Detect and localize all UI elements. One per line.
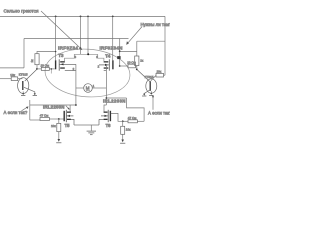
svg-text:3: 3 — [75, 55, 77, 59]
ground arrow T6 — [120, 140, 125, 144]
resistor R pulldown T5 — [57, 119, 61, 139]
resistor R base left (10k) — [11, 77, 22, 81]
svg-text:47 Ом: 47 Ом — [40, 114, 49, 118]
wire bottom-left route vertical — [29, 100, 31, 120]
wire bottom-left route horizontal — [30, 119, 40, 121]
wire jog right — [120, 51, 137, 53]
wire left input lower — [0, 78, 11, 80]
svg-text:А если так?: А если так? — [148, 110, 170, 115]
svg-text:10к: 10к — [126, 128, 131, 132]
svg-text:1к: 1к — [140, 59, 144, 63]
node dot jog right — [119, 50, 121, 52]
transistor VT2 КТ315 right — [137, 69, 157, 96]
node T6 gate dot — [122, 120, 124, 122]
svg-text:10к: 10к — [10, 73, 15, 77]
svg-text:10к: 10к — [51, 124, 56, 128]
resistor R series gate T5 — [40, 118, 49, 121]
node rail dot A — [55, 16, 57, 18]
node rail dot B — [80, 16, 82, 18]
ground center — [87, 125, 96, 135]
wire T3 source corner — [65, 54, 75, 61]
svg-text:47 Ом: 47 Ом — [128, 116, 137, 120]
node T5 gate dot — [58, 118, 60, 120]
svg-text:10 Ом: 10 Ом — [41, 64, 50, 68]
resistor R gate pull-up right — [135, 56, 139, 69]
wire right route down — [127, 98, 145, 121]
wire T4 gate vertical — [112, 16, 114, 60]
node rail dot D — [112, 16, 114, 18]
motor M1 — [76, 84, 107, 93]
wire into T5 gate — [49, 118, 63, 120]
wire right route y98 — [106, 97, 126, 99]
svg-text:T5: T5 — [65, 123, 71, 128]
svg-text:IRL2203N: IRL2203N — [43, 105, 65, 110]
svg-text:А если так?: А если так? — [4, 110, 28, 115]
resistor R base right — [151, 73, 165, 80]
annotation arrow2 — [127, 27, 142, 45]
node collector dot right — [136, 69, 138, 71]
wire T5 drain bus — [30, 104, 76, 106]
svg-text:M: M — [86, 86, 90, 91]
transistor T4 (IRF9Z34N) — [99, 59, 113, 70]
wire motor node right vertical — [105, 65, 107, 105]
wire T3 gate vertical — [55, 16, 57, 60]
wire T5 drain drop — [69, 105, 71, 112]
svg-text:IRL2203N: IRL2203N — [103, 99, 126, 104]
svg-text:IRF9Z34: IRF9Z34 — [58, 45, 78, 50]
node dot gate right — [119, 65, 121, 67]
resistor R series right mid — [120, 64, 137, 68]
annotation arrow4 — [152, 97, 154, 110]
wire source vertical left — [80, 16, 82, 54]
resistor R pulldown T6 — [121, 121, 125, 139]
svg-text:T4: T4 — [105, 53, 111, 58]
annotation arrow1 — [41, 11, 80, 48]
transistor T6 (IRL2203N) — [99, 110, 110, 125]
node source bus dot — [87, 53, 89, 55]
wire source bracket bottom — [74, 124, 99, 126]
svg-text:КТ315: КТ315 — [19, 73, 28, 77]
svg-text:КТ315: КТ315 — [145, 75, 154, 79]
wire source vertical right — [87, 16, 89, 54]
wire T4 source corner — [98, 54, 104, 61]
wire T6 drain drop — [104, 105, 106, 112]
transistor T3 (IRF9Z34) — [56, 59, 76, 70]
resistor R series gate T6 — [123, 120, 144, 123]
svg-text:1: 1 — [93, 84, 95, 88]
svg-text:1к: 1к — [30, 59, 34, 63]
wire right top vertical — [119, 39, 121, 67]
transistor VT1 КТ315 left — [18, 69, 37, 95]
wire bus y38 — [24, 38, 129, 40]
wire motor node left vertical — [75, 64, 77, 105]
node rail dot C — [87, 16, 89, 18]
wire source bus y54 — [74, 53, 97, 55]
svg-text:10 Ом: 10 Ом — [127, 60, 136, 64]
wire left box vertical — [23, 39, 25, 68]
ground arrow T5 — [56, 139, 61, 143]
resistor R gate pull-up left (1k) — [35, 51, 56, 69]
node collector dot left — [36, 68, 38, 70]
wire y41 corner down — [136, 41, 138, 56]
svg-text:T6: T6 — [106, 123, 112, 128]
svg-text:Сильно греются: Сильно греются — [4, 9, 39, 14]
annotation tick after label — [66, 106, 69, 110]
resistor R series gate left — [37, 67, 55, 73]
wire right y41 — [137, 40, 165, 42]
small dark mark on vertical — [117, 56, 120, 59]
highlight ellipse around output transistors — [43, 46, 131, 99]
wire T6 gate zigzag — [111, 113, 123, 121]
svg-text:10к: 10к — [157, 70, 162, 74]
transistor T5 (IRL2203N) — [64, 110, 74, 125]
annotation arrow3 — [22, 107, 28, 111]
wire right edge vertical — [164, 16, 166, 75]
node motor right dot — [106, 97, 108, 99]
svg-text:T3: T3 — [58, 53, 64, 58]
node motor left bottom dot — [75, 104, 77, 106]
node gate series dot left — [51, 68, 53, 70]
wire left input upper — [0, 67, 24, 69]
wire top supply rail — [0, 15, 165, 17]
svg-text:Нужны ли там?: Нужны ли там? — [141, 22, 171, 27]
